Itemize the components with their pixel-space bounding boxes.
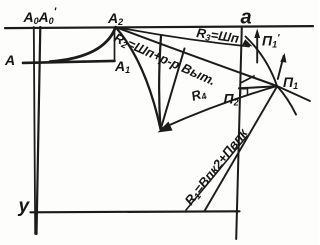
svg-text:П2: П2	[224, 91, 239, 108]
wire short stroke left of P1	[242, 76, 255, 83]
svg-text:A1: A1	[114, 58, 130, 75]
wire vertical A2-A1	[114, 28, 116, 61]
wire left vertical from A0' to U	[37, 27, 41, 234]
wire rotation arc P1 to P1'	[246, 37, 278, 87]
svg-text:R4: R4	[189, 85, 208, 105]
svg-text:у: у	[18, 196, 31, 217]
wire P2-P1 horizontal	[239, 86, 277, 88]
svg-text:П1': П1'	[262, 33, 280, 50]
wire top horizontal line a0-a	[5, 26, 313, 28]
svg-text:а: а	[241, 7, 252, 29]
svg-text:A2: A2	[107, 10, 123, 27]
node right angle square at P2	[241, 89, 248, 95]
wire left vertical from A0	[34, 27, 35, 234]
wire R2 shoulder line A2 to P1	[116, 27, 278, 86]
svg-text:R1=Впк2+Пвпк: R1=Впк2+Пвпк	[182, 125, 252, 209]
svg-text:A0: A0	[23, 9, 39, 26]
wire R3 line A2 toward P1'	[116, 27, 250, 47]
wire extension beyond P1	[277, 86, 310, 101]
wire R4 line apex to P1	[161, 86, 278, 129]
svg-text:A0': A0'	[38, 6, 57, 26]
wire R1 line to P1	[205, 87, 278, 212]
node arrowhead of R3	[242, 39, 252, 46]
wire vertical line a	[236, 27, 242, 239]
wire neckline curve A to A2	[50, 28, 116, 62]
wire arrow shaft up at P1	[278, 56, 284, 79]
svg-text:П1: П1	[283, 74, 298, 91]
wire dart leg vertical to apex	[159, 36, 161, 129]
node arrowhead of up arrow at P1	[280, 53, 286, 63]
wire bottom horizontal line at U level	[31, 211, 240, 212]
node arrowhead of up arrow near P1'	[254, 29, 260, 39]
wire arrow shaft up near P1'	[256, 33, 258, 63]
wire horizontal A-A1	[23, 61, 115, 63]
svg-text:A: A	[4, 52, 15, 68]
wire armhole continuation below P1	[277, 86, 296, 115]
wire dart leg 2 to apex	[161, 49, 185, 129]
wire dart curve from A2 to apex	[116, 27, 161, 129]
node arrowhead at apex of R4	[158, 122, 173, 133]
wire underline of R1 label	[186, 136, 247, 210]
